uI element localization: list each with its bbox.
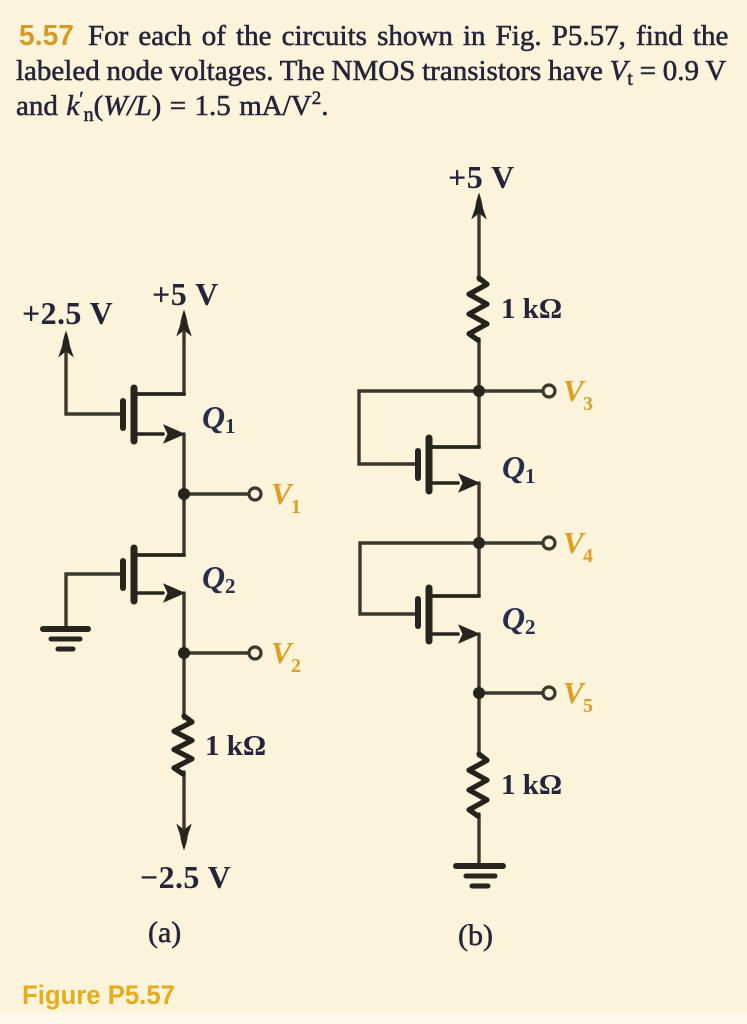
wire: node V3 gate loop of Q1 <box>359 391 479 464</box>
wire: node V3 down to Q1 drain <box>432 391 479 447</box>
svg-text:Q: Q <box>202 399 225 435</box>
svg-text:5.57: 5.57 <box>19 20 74 52</box>
node V3 dot <box>473 385 485 397</box>
resistor 1k top (b) <box>469 278 487 340</box>
svg-text:Q: Q <box>502 449 525 485</box>
svg-text:4: 4 <box>583 545 593 567</box>
svg-text:Q: Q <box>502 600 525 636</box>
svg-text:1: 1 <box>225 414 236 438</box>
wire: +5V drop to Q1 drain <box>137 325 184 394</box>
svg-text:(b): (b) <box>458 919 493 952</box>
wire: node V2 to terminal <box>184 651 248 654</box>
power arrow +5V (a) <box>176 310 192 337</box>
wire: Q1 source down to node V1 <box>182 434 185 494</box>
transistor Q1 (a) <box>123 388 184 441</box>
svg-text:2: 2 <box>225 574 236 598</box>
svg-text:Figure P5.57: Figure P5.57 <box>22 980 175 1010</box>
svg-text:and k′n(W/L) = 1.5 mA/V2.: and k′n(W/L) = 1.5 mA/V2. <box>16 88 328 126</box>
wire: Q2 gate lead to ground <box>66 574 120 626</box>
wire: node V4 gate loop of Q2 <box>360 543 479 614</box>
svg-text:−2.5 V: −2.5 V <box>140 859 231 895</box>
wire: node V2 down to resistor <box>182 653 185 718</box>
node V4 terminal <box>543 537 555 549</box>
svg-text:Q: Q <box>202 559 225 595</box>
wire: node V3 to terminal <box>479 389 542 392</box>
resistor 1k bottom (b) <box>469 754 487 816</box>
wire: resistor down to -2.5V arrow <box>182 772 185 838</box>
wire: +5V drop to resistor <box>477 211 480 280</box>
node V1 dot <box>178 488 190 500</box>
supply arrow -2.5V (down) <box>176 824 192 851</box>
svg-text:1 kΩ: 1 kΩ <box>205 730 266 762</box>
faint lighter strip at bottom of scan <box>0 1013 747 1024</box>
node V5 dot <box>473 687 485 699</box>
wire: node V5 down to resistor <box>477 693 480 756</box>
svg-text:labeled node voltages. The NMO: labeled node voltages. The NMOS transist… <box>16 55 726 90</box>
wire: node V1 down to Q2 drain <box>137 494 184 555</box>
wire: Q2 source to node V5 <box>477 634 480 693</box>
svg-text:+5 V: +5 V <box>448 159 515 195</box>
ground (b) <box>456 866 503 886</box>
transistor Q2 (b) <box>418 588 479 641</box>
svg-text:1: 1 <box>525 464 536 488</box>
wire: node V4 down to Q2 drain <box>432 543 479 596</box>
ground (a) <box>43 629 88 649</box>
wire: node V4 to terminal <box>479 541 542 544</box>
node V3 terminal <box>543 385 555 397</box>
svg-text:1: 1 <box>291 496 301 518</box>
wire: resistor to node V3 <box>477 339 480 391</box>
node V2 dot <box>178 647 190 659</box>
resistor R (a) 1k <box>174 716 192 774</box>
node V2 terminal <box>249 647 261 659</box>
wire: +2.5V lead down and right to Q1 gate <box>66 346 120 414</box>
wire: node V5 to terminal <box>479 691 542 694</box>
svg-text:1 kΩ: 1 kΩ <box>501 769 562 801</box>
svg-text:3: 3 <box>583 393 593 415</box>
svg-text:2: 2 <box>291 655 301 677</box>
node V4 dot <box>473 537 485 549</box>
wire: node V1 to terminal <box>184 492 248 495</box>
svg-text:+2.5 V: +2.5 V <box>22 295 113 331</box>
svg-text:+5 V: +5 V <box>152 276 219 312</box>
wire: Q1 source to node V4 <box>477 483 480 543</box>
svg-text:5: 5 <box>583 695 593 717</box>
transistor Q2 (a) <box>123 548 184 601</box>
power arrow +5V (b) <box>471 193 487 220</box>
svg-text:1 kΩ: 1 kΩ <box>501 293 562 325</box>
transistor Q1 (b) <box>418 438 479 491</box>
svg-text:(a): (a) <box>148 916 181 949</box>
node V5 terminal <box>543 687 555 699</box>
node V1 terminal <box>249 488 261 500</box>
wire: Q2 source down to node V2 <box>182 593 185 653</box>
wire: resistor to ground <box>477 814 480 864</box>
svg-text:For each of the circuits shown: For each of the circuits shown in Fig. P… <box>88 20 728 52</box>
power arrow +2.5V <box>58 331 74 358</box>
svg-text:2: 2 <box>525 615 536 639</box>
